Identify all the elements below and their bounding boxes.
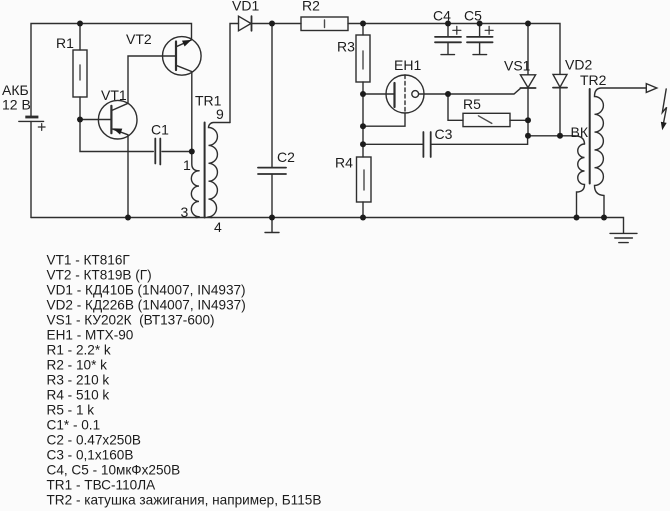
svg-text:R5: R5 xyxy=(463,96,481,112)
svg-text:TR2: TR2 xyxy=(580,72,607,88)
junction dot VS1 cathode node xyxy=(525,133,531,139)
capacitor C2 plate bottom xyxy=(258,173,286,175)
diode VD1 cathode bar xyxy=(251,16,253,31)
svg-text:VS1 - КУ202К (ВТ137-600): VS1 - КУ202К (ВТ137-600) xyxy=(47,313,215,328)
junction dot C5 top xyxy=(477,21,483,27)
capacitor C4 lower stem and bar xyxy=(441,42,455,54)
svg-text:12 В: 12 В xyxy=(2,97,31,113)
junction dot R3 bottom node xyxy=(360,91,366,97)
svg-text:C2: C2 xyxy=(277,149,295,165)
svg-text:С1* - 0.1: С1* - 0.1 xyxy=(47,418,101,433)
svg-text:R2: R2 xyxy=(302,0,320,14)
wire C3 right with jog xyxy=(431,136,527,145)
capacitor C4 plus sign xyxy=(453,26,461,34)
wire R5 left branch xyxy=(448,94,463,120)
transformer TR1 core xyxy=(204,123,206,218)
svg-text:ВК: ВК xyxy=(571,124,589,140)
thyristor VS1 cathode wire xyxy=(527,88,529,136)
thyristor VS1 anode stem xyxy=(527,24,529,75)
wire R3 node to EH1 xyxy=(363,93,395,95)
svg-text:VS1: VS1 xyxy=(504,58,531,74)
transformer TR2 core xyxy=(589,89,591,184)
junction dot VD2 bottom node xyxy=(557,133,563,139)
chassis stub below C2 xyxy=(265,218,279,233)
transistor VT1 emitter wire xyxy=(111,129,128,218)
diode VD1 triangle xyxy=(239,16,252,31)
wire C3 left xyxy=(363,143,423,145)
svg-text:R5 - 1 k: R5 - 1 k xyxy=(47,403,95,418)
transformer TR2 primary winding xyxy=(577,144,585,218)
wire VT1 base xyxy=(80,119,111,121)
svg-text:R4: R4 xyxy=(335,155,353,171)
resistor R5 xyxy=(463,113,510,126)
svg-text:VT2 - КТ819В (Г): VT2 - КТ819В (Г) xyxy=(47,268,152,283)
junction dot EH1 output node xyxy=(445,91,451,97)
junction dot VD1 cathode xyxy=(269,21,275,27)
wire R3 bottom to R4 top xyxy=(362,82,364,157)
svg-text:VT1 - КТ816Г: VT1 - КТ816Г xyxy=(47,253,131,268)
transistor VT1 collector xyxy=(111,56,176,111)
wire top rail battery to VT2 emitter xyxy=(31,24,192,117)
diode VD2 triangle xyxy=(553,74,567,87)
resistor R4 xyxy=(357,157,372,202)
diode VD2 cathode wire xyxy=(559,88,561,136)
wire top rail R2 to VD2 corner xyxy=(348,24,560,75)
thyristor VS1 cathode bar xyxy=(520,87,535,89)
resistor R2 inner mark xyxy=(324,20,326,28)
junction dot VT1 emitter rail xyxy=(125,215,131,221)
capacitor C5 plus sign xyxy=(485,26,493,34)
transformer TR1 winding 9-4 xyxy=(209,123,231,218)
svg-text:VD2 - КД226В (1N4007, IN4937): VD2 - КД226В (1N4007, IN4937) xyxy=(47,298,246,313)
capacitor C1 plate right xyxy=(159,139,161,165)
transistor VT2 circle xyxy=(163,37,202,76)
junction dot rail R1 xyxy=(77,21,83,27)
wire EH1 bottom xyxy=(363,113,405,126)
svg-text:VD1: VD1 xyxy=(232,0,259,14)
capacitor C1 plate left xyxy=(154,139,156,164)
capacitor C5 stem xyxy=(479,24,481,37)
svg-text:VT2: VT2 xyxy=(126,31,152,47)
capacitor C2 plate top xyxy=(258,167,286,169)
wire C1 right to node xyxy=(162,151,192,153)
junction dot R4 rail xyxy=(360,215,366,221)
wire C2 bottom to rail xyxy=(271,174,273,217)
junction dot C1 right node xyxy=(189,149,195,155)
resistor R4 inner mark xyxy=(363,170,365,190)
battery GB AKB 12V plate thin xyxy=(19,120,44,122)
junction dot C4 top xyxy=(445,21,451,27)
wire R1 stem top xyxy=(79,24,81,51)
capacitor C4 stem xyxy=(447,24,449,37)
svg-text:9: 9 xyxy=(216,106,224,122)
svg-text:ЕН1 - МТХ-90: ЕН1 - МТХ-90 xyxy=(47,328,134,343)
svg-text:4: 4 xyxy=(214,219,222,235)
svg-text:С2 - 0.47х250В: С2 - 0.47х250В xyxy=(47,433,141,448)
transistor VT2 collector wire to TR1 pin1 xyxy=(176,65,199,171)
wire battery bottom to rail xyxy=(30,122,32,218)
junction dot TR2 secondary rail xyxy=(601,215,607,221)
wire bottom rail xyxy=(31,217,604,219)
resistor R5 inner mark xyxy=(478,116,491,124)
battery plus sign xyxy=(38,124,45,131)
resistor R2 xyxy=(301,17,348,31)
neon lamp EH1 dashed line xyxy=(404,75,406,113)
svg-text:R2 - 10* k: R2 - 10* k xyxy=(47,358,108,373)
wire VD1 cathode to R2 xyxy=(252,23,302,25)
wire R3 stem xyxy=(362,24,364,36)
wire TR1 pin9 to VD1 anode xyxy=(230,24,239,123)
svg-text:3: 3 xyxy=(181,204,189,220)
spark lightning arrowhead xyxy=(661,122,667,131)
ground symbol xyxy=(610,233,637,242)
thyristor VS1 triangle xyxy=(520,75,535,88)
junction dot C3 left node xyxy=(360,141,366,147)
transistor VT2 base bar xyxy=(175,42,177,71)
transformer TR2 secondary winding xyxy=(595,88,647,218)
svg-text:1: 1 xyxy=(183,157,191,173)
wire R1 bottom to C1 xyxy=(80,97,153,152)
svg-text:С4, С5 - 10мкФх250В: С4, С5 - 10мкФх250В xyxy=(47,463,181,478)
svg-text:C4: C4 xyxy=(433,8,451,24)
transformer TR1 winding 1-3 xyxy=(191,171,199,218)
svg-text:С3 - 0,1х160В: С3 - 0,1х160В xyxy=(47,448,134,463)
resistor R3 xyxy=(356,35,370,82)
resistor R1 xyxy=(73,50,87,97)
wire R4 bottom to rail xyxy=(362,202,364,218)
capacitor C4 plates xyxy=(435,37,461,42)
resistor R3 inner mark xyxy=(362,51,364,69)
wire node to TR2 primary xyxy=(528,136,585,144)
junction dot VS1 top xyxy=(525,21,531,27)
transistor VT1 circle xyxy=(98,100,137,139)
capacitor C5 lower stem and bar xyxy=(473,42,487,54)
transistor VT1 emitter arrow xyxy=(113,128,123,134)
neon lamp EH1 circle xyxy=(386,75,424,113)
junction dot R5 right node xyxy=(525,117,531,123)
svg-text:TR1 - ТВС-110ЛА: TR1 - ТВС-110ЛА xyxy=(47,478,157,493)
svg-text:R4 - 510 k: R4 - 510 k xyxy=(47,388,110,403)
svg-text:C5: C5 xyxy=(464,8,482,24)
transistor VT2 emitter wire xyxy=(176,40,192,47)
battery GB AKB 12V plate thick xyxy=(25,116,38,119)
svg-text:R3 - 210 k: R3 - 210 k xyxy=(47,373,110,388)
wire R5 right xyxy=(510,119,528,121)
neon lamp EH1 left electrode xyxy=(393,83,395,107)
transistor VT2 emitter arrow xyxy=(182,40,192,47)
capacitor C5 plates xyxy=(467,37,493,42)
svg-text:VD2: VD2 xyxy=(565,57,592,73)
svg-text:C1: C1 xyxy=(151,122,169,138)
svg-text:R3: R3 xyxy=(337,39,355,55)
output arrow head xyxy=(646,84,657,93)
svg-text:VT1: VT1 xyxy=(101,87,127,103)
svg-text:EH1: EH1 xyxy=(394,57,421,73)
transistor VT1 base bar xyxy=(110,106,112,133)
svg-text:R1: R1 xyxy=(56,35,74,51)
neon lamp EH1 dot electrode xyxy=(412,91,419,98)
svg-text:C3: C3 xyxy=(435,126,453,142)
wire C2 branch down xyxy=(271,24,273,168)
svg-text:VD1 - КД410Б (1N4007, IN4937): VD1 - КД410Б (1N4007, IN4937) xyxy=(47,283,246,298)
junction dot R1 base node xyxy=(77,117,83,123)
resistor R1 inner mark xyxy=(79,65,81,80)
svg-text:TR2 - катушка зажигания, напри: TR2 - катушка зажигания, например, Б115В xyxy=(47,493,322,508)
capacitor C3 plates xyxy=(423,132,430,157)
wire rail to ground xyxy=(604,218,624,234)
spark lightning bolt xyxy=(662,89,666,123)
junction dot R3 top xyxy=(360,21,366,27)
svg-text:R1 - 2.2* k: R1 - 2.2* k xyxy=(47,343,111,358)
junction dot TR2 primary rail xyxy=(574,215,580,221)
junction dot C2 rail xyxy=(269,215,275,221)
junction dot EH1 bottom node xyxy=(360,123,366,129)
wire EH1 to VS1 gate xyxy=(419,88,521,94)
diode VD2 cathode bar xyxy=(553,87,567,89)
